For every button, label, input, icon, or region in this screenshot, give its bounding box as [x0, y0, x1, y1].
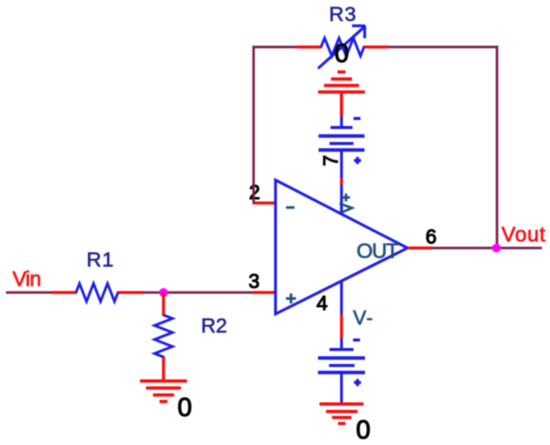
svg-text:7: 7 [321, 155, 343, 166]
battery V+ supply plates [319, 128, 365, 151]
wire feedback vertical left [252, 46, 255, 203]
wire junction to pin 3 [164, 291, 254, 294]
svg-text:R3: R3 [329, 3, 357, 26]
wire feedback top left segment [253, 46, 299, 49]
svg-text:R1: R1 [87, 249, 115, 272]
op-amp pin 4 stub from bottom edge [340, 281, 343, 314]
op-amp pin 7 lead red tick [340, 178, 343, 185]
wire R1 to junction [143, 291, 164, 294]
resistor R1 body [76, 284, 118, 302]
op-amp inverting input minus marker [286, 206, 295, 209]
op-amp V+ plus marker [342, 194, 350, 202]
ground 0 inverted above V1 [318, 72, 365, 116]
wire Vin input segment [6, 291, 54, 294]
battery V+ plus mark [354, 157, 361, 164]
svg-text:OUT: OUT [357, 240, 400, 263]
resistor R3 body [321, 38, 364, 56]
op-amp pin 2 lead [253, 202, 277, 205]
resistor R2 pin top [162, 293, 165, 317]
resistor R2 pin bottom [162, 356, 165, 381]
resistor R1 pin left [52, 291, 77, 294]
svg-text:4: 4 [317, 293, 328, 315]
resistor R3 pin left [297, 46, 322, 49]
battery V- plates [318, 350, 365, 373]
svg-text:Vout: Vout [502, 224, 546, 247]
svg-text:3: 3 [249, 271, 260, 293]
op-amp pin 6 lead [408, 247, 433, 250]
ground 0 at V- battery [320, 404, 364, 424]
op-amp triangle body [276, 180, 408, 314]
svg-text:0: 0 [178, 392, 192, 422]
svg-text:V-: V- [353, 308, 374, 330]
battery V+ minus mark [354, 117, 361, 120]
resistor R3 pin right [363, 46, 388, 49]
wire feedback vertical right [496, 46, 499, 248]
svg-text:0: 0 [335, 38, 349, 68]
resistor R2 body [155, 315, 173, 357]
ground 0 at R2 [140, 381, 187, 402]
svg-text:Vin: Vin [13, 268, 41, 291]
battery V+ stem bottom [340, 150, 343, 178]
op-amp pin 4 lead red [340, 314, 343, 338]
svg-text:6: 6 [426, 227, 437, 249]
Vout junction dot [492, 244, 501, 253]
battery V- plus mark [354, 379, 361, 386]
svg-text:0: 0 [356, 415, 370, 445]
resistor R1 pin right [117, 291, 143, 294]
svg-text:R2: R2 [201, 315, 227, 338]
resistor R3 variable arrow [318, 26, 366, 69]
op-amp non-inverting input plus marker [286, 294, 296, 304]
junction node dot [159, 288, 168, 297]
wire pin6 to Vout [432, 247, 542, 250]
battery V- stem top [340, 338, 343, 350]
op-amp V+ arrow chevron [339, 204, 352, 214]
op-amp pin 3 lead [253, 291, 277, 294]
wire top between R3 and right corner [388, 46, 498, 49]
op-amp pin 7 stub into top edge [340, 185, 343, 216]
battery V- stem bottom [340, 373, 343, 405]
battery V- minus mark [353, 339, 360, 342]
battery V+ supply stem top [340, 116, 343, 128]
